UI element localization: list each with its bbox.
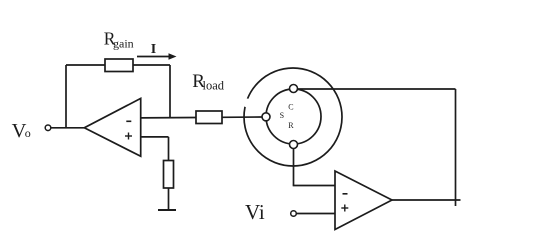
wire feedback top left segment bbox=[66, 64, 105, 66]
wire U2 output bbox=[392, 199, 461, 201]
svg-text:C: C bbox=[288, 103, 293, 112]
wire + input down to resistor bbox=[168, 137, 170, 161]
U1 non-inverting pin label + bbox=[125, 133, 132, 140]
terminal Vo (open circle) bbox=[45, 125, 51, 131]
svg-text:R: R bbox=[288, 121, 294, 130]
svg-text:o: o bbox=[25, 126, 31, 140]
svg-text:Vi: Vi bbox=[245, 200, 265, 224]
wire Vo terminal to op-amp output bbox=[51, 127, 85, 129]
U2 non-inverting pin label + bbox=[341, 205, 348, 212]
label Rgain bbox=[104, 28, 134, 50]
resistor (unlabeled, to ground) bbox=[164, 161, 174, 189]
svg-text:load: load bbox=[203, 78, 225, 92]
ground bbox=[158, 209, 176, 211]
wire feedback top right segment bbox=[133, 64, 170, 66]
label Vo bbox=[12, 120, 31, 142]
terminal C (top of inner circle) bbox=[290, 85, 298, 93]
svg-text:gain: gain bbox=[113, 36, 134, 50]
resistor Rload bbox=[196, 111, 222, 124]
wire R terminal down bbox=[293, 149, 295, 186]
wire feedback right vertical to inverting input node bbox=[169, 65, 171, 118]
transducer outer circle (with small scan gap upper-left) bbox=[244, 68, 342, 166]
terminal Vi (open circle) bbox=[291, 211, 297, 217]
terminal R (bottom of inner circle) bbox=[290, 141, 298, 149]
current arrow I bbox=[137, 53, 177, 60]
resistor Rgain bbox=[105, 59, 133, 72]
op-amp U2 (right, output facing right) bbox=[335, 171, 392, 230]
wire feedback left vertical bbox=[65, 65, 67, 128]
op-amp U1 (left, output facing left) bbox=[84, 98, 140, 156]
wire C terminal to right vertical bbox=[298, 88, 456, 90]
U1 inverting pin label - bbox=[126, 120, 131, 122]
wire Vi to U2 non-inverting input bbox=[296, 213, 335, 215]
svg-text:S: S bbox=[280, 111, 284, 120]
terminal S (left of inner circle) bbox=[262, 113, 270, 121]
wire Rload to transducer S terminal bbox=[222, 116, 262, 118]
U2 inverting pin label - bbox=[343, 193, 348, 195]
wire resistor to ground bbox=[168, 188, 170, 210]
label Rload bbox=[192, 71, 224, 92]
wire to U2 inverting input bbox=[293, 185, 335, 187]
wire right vertical down to U2 output bbox=[455, 89, 457, 206]
wire U1 non-inverting input stub bbox=[141, 136, 169, 138]
transducer inner circle bbox=[266, 89, 321, 144]
wire U1 inverting input to Rload bbox=[141, 117, 196, 119]
svg-text:I: I bbox=[151, 42, 156, 57]
